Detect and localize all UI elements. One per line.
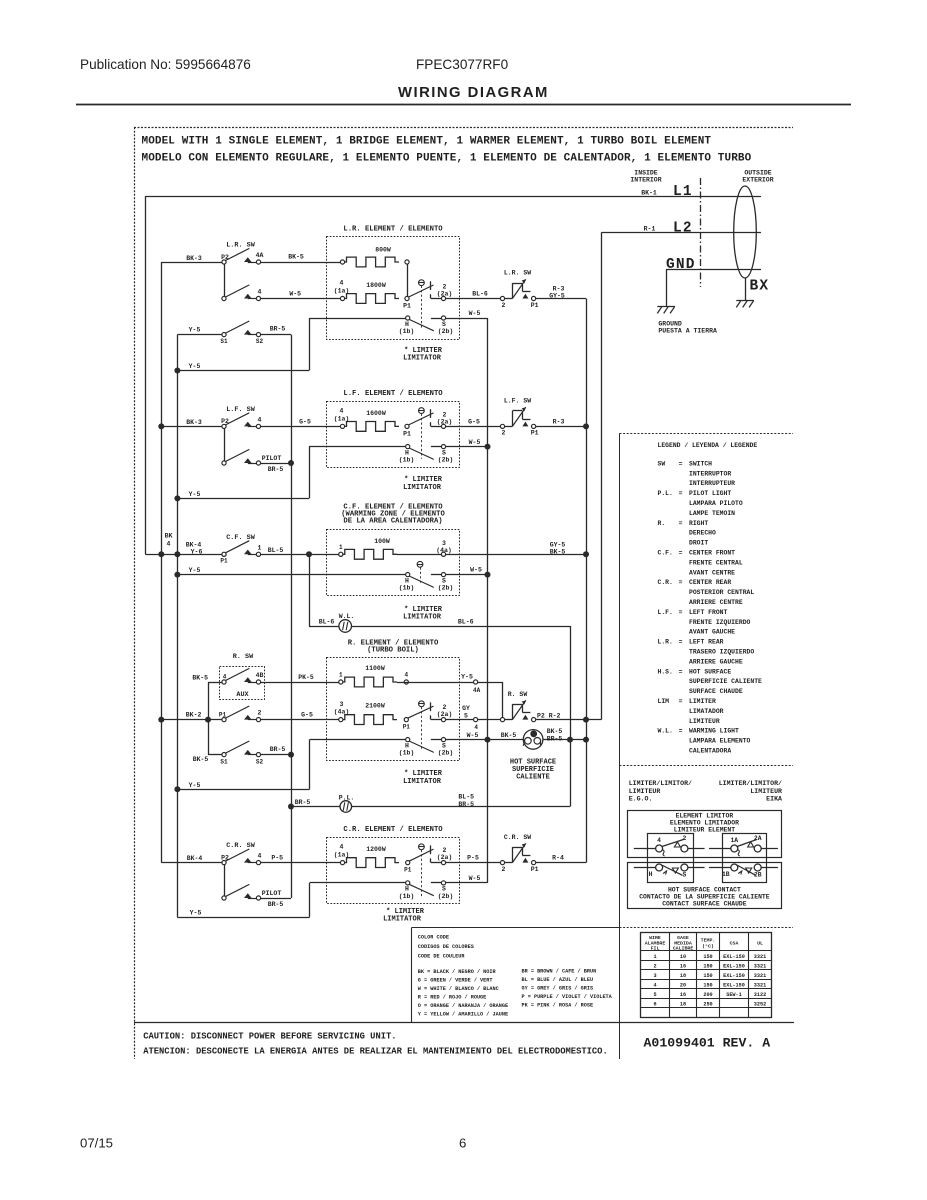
svg-text:L.R.: L.R.	[658, 639, 673, 646]
svg-text:(1a): (1a)	[334, 288, 350, 295]
svg-text:BK = BLACK / NEGRO / NOIR: BK = BLACK / NEGRO / NOIR	[418, 969, 497, 975]
svg-text:2: 2	[653, 963, 656, 969]
svg-text:=: =	[679, 490, 683, 497]
limiter contact P1-2a	[408, 285, 433, 297]
svg-text:BR-5: BR-5	[458, 801, 474, 808]
legend box top dashed line	[620, 433, 794, 435]
svg-text:3321: 3321	[754, 954, 766, 960]
svg-text:BK-5: BK-5	[501, 732, 517, 739]
svg-text:SWITCH: SWITCH	[689, 460, 712, 467]
svg-text:6: 6	[459, 1136, 466, 1151]
wire bus W-5	[487, 318, 489, 883]
pilot contact	[248, 463, 257, 465]
link P2 to pilot pole (C.R.)	[224, 865, 226, 897]
switch S1/S2 (R.)	[208, 754, 222, 756]
svg-text:5: 5	[653, 992, 656, 998]
svg-text:LIMITATOR: LIMITATOR	[383, 915, 422, 923]
svg-text:3252: 3252	[754, 1001, 766, 1007]
wire BR-5 from S2 (R.)	[261, 754, 291, 756]
svg-text:AVANT CENTRE: AVANT CENTRE	[689, 569, 735, 576]
svg-text:LIMITER: LIMITER	[689, 698, 716, 705]
svg-text:CALIBRE: CALIBRE	[673, 946, 694, 952]
svg-text:HOT SURFACE CONTACT: HOT SURFACE CONTACT	[668, 886, 741, 893]
wire bus W.L./BL-5	[570, 626, 572, 807]
svg-text:(2b): (2b)	[438, 750, 454, 757]
svg-text:BK-5: BK-5	[192, 675, 208, 682]
infinite switch L.F. SW	[500, 424, 504, 428]
svg-text:EXL-150: EXL-150	[723, 963, 745, 969]
svg-text:4: 4	[223, 673, 227, 680]
svg-text:H: H	[405, 321, 409, 328]
svg-text:(4a): (4a)	[436, 547, 452, 554]
svg-text:S: S	[442, 886, 446, 893]
svg-text:BL-6: BL-6	[319, 619, 335, 626]
svg-text:(2b): (2b)	[438, 585, 454, 592]
svg-text:(2b): (2b)	[438, 457, 454, 464]
svg-text:S: S	[442, 321, 446, 328]
svg-text:WIRE: WIRE	[649, 935, 661, 941]
svg-text:P-5: P-5	[467, 854, 479, 861]
svg-text:150: 150	[703, 954, 712, 960]
svg-text:S2: S2	[256, 338, 264, 345]
wire BL-6 warming light	[309, 554, 311, 626]
svg-text:4: 4	[258, 289, 262, 296]
svg-text:TRASERO IZQUIERDO: TRASERO IZQUIERDO	[689, 649, 754, 656]
svg-text:S1: S1	[220, 758, 228, 765]
svg-text:R-4: R-4	[552, 854, 564, 861]
L.R. element dashed box	[327, 237, 460, 340]
svg-text:R. SW: R. SW	[233, 653, 254, 661]
svg-text:L.R. SW: L.R. SW	[226, 242, 255, 250]
wire bus BK	[161, 262, 163, 863]
svg-text:4: 4	[340, 280, 344, 287]
pilot contact (C.R.)	[248, 898, 257, 900]
svg-text:DROIT: DROIT	[689, 540, 708, 547]
contact 4A	[248, 262, 257, 264]
wire pilot to BR bus (C.R.)	[261, 898, 291, 900]
svg-text:W = WHITE / BLANCO / BLANC: W = WHITE / BLANCO / BLANC	[418, 986, 499, 992]
link P2 to lower pole	[224, 264, 226, 296]
limiter contact P1-2a (R.)	[408, 706, 434, 718]
svg-text:DE LA AREA CALENTADORA): DE LA AREA CALENTADORA)	[343, 518, 442, 526]
L.R. H/S limiter row	[309, 318, 406, 320]
svg-text:BK-3: BK-3	[186, 419, 202, 426]
svg-text:(1b): (1b)	[399, 328, 415, 335]
switch L.R. SW pole P2	[226, 248, 250, 260]
svg-text:20: 20	[680, 982, 686, 988]
svg-text:HOT SURFACE: HOT SURFACE	[689, 668, 731, 675]
svg-text:P2: P2	[221, 254, 229, 261]
wire BK-3 to L.F. SW	[161, 426, 222, 428]
switch L.R. SW pole 2	[226, 285, 250, 297]
svg-text:P1: P1	[531, 430, 539, 437]
svg-text:CENTER REAR: CENTER REAR	[689, 579, 731, 586]
svg-text:C.R. SW: C.R. SW	[226, 842, 255, 850]
wire BK-5 aux feed	[208, 682, 222, 684]
svg-text:CENTER FRONT: CENTER FRONT	[689, 550, 735, 557]
svg-text:4A: 4A	[256, 252, 264, 259]
svg-text:(1a): (1a)	[334, 852, 350, 859]
cable loop ellipse	[734, 186, 757, 278]
svg-text:P2 R-2: P2 R-2	[537, 712, 561, 719]
svg-text:BR-5: BR-5	[268, 901, 284, 908]
L.F. element dashed box	[327, 402, 460, 468]
svg-text:(1b): (1b)	[399, 893, 415, 900]
svg-text:LIM: LIM	[658, 698, 670, 705]
hot surface contact box	[628, 863, 782, 909]
frame left edge	[134, 127, 136, 1059]
svg-text:16: 16	[680, 963, 686, 969]
svg-text:H: H	[405, 577, 409, 584]
svg-text:LIMITATOR: LIMITATOR	[403, 484, 442, 492]
svg-text:P1: P1	[403, 303, 411, 310]
svg-text:1: 1	[653, 954, 656, 960]
wire BL-6 to right	[351, 626, 570, 628]
svg-text:LIMITATOR: LIMITATOR	[403, 614, 442, 622]
BX ground symbol	[736, 300, 754, 302]
svg-text:G-5: G-5	[468, 418, 480, 425]
svg-text:4: 4	[340, 407, 344, 414]
svg-text:INTERRUPTEUR: INTERRUPTEUR	[689, 480, 735, 487]
svg-text:L.R. ELEMENT / ELEMENTO: L.R. ELEMENT / ELEMENTO	[343, 226, 443, 234]
svg-text:L.F. SW: L.F. SW	[504, 398, 531, 405]
limiter contact cell E.G.O.	[648, 834, 694, 883]
svg-text:GND: GND	[666, 257, 696, 273]
L.F. H/S limiter row	[309, 446, 406, 448]
svg-text:BL-6: BL-6	[458, 619, 474, 626]
svg-text:BL = BLUE / AZUL / BLEU: BL = BLUE / AZUL / BLEU	[522, 977, 594, 983]
svg-text:LIMITEUR: LIMITEUR	[689, 718, 720, 725]
svg-text:DERECHO: DERECHO	[689, 530, 716, 537]
svg-text:Y-5: Y-5	[189, 327, 201, 334]
svg-text:4: 4	[258, 416, 262, 423]
wire G-5 (R.)	[261, 719, 339, 721]
wire BR-5 to pilot lamp P.L.	[291, 806, 340, 808]
wire GY/5 to terminal 4	[446, 719, 474, 721]
svg-text:1600W: 1600W	[366, 410, 386, 417]
svg-text:L.R. SW: L.R. SW	[504, 270, 531, 277]
svg-text:16: 16	[680, 992, 686, 998]
BX ground stem	[745, 278, 747, 300]
svg-text:1: 1	[339, 672, 343, 679]
svg-text:LAMPARA ELEMENTO: LAMPARA ELEMENTO	[689, 738, 751, 745]
svg-text:BR-5: BR-5	[547, 735, 563, 742]
link 800W to P1	[407, 264, 409, 296]
svg-text:4B: 4B	[256, 672, 264, 679]
svg-text:L.F.: L.F.	[658, 609, 673, 616]
svg-text:P1: P1	[531, 302, 539, 309]
pilot switch pole	[226, 449, 250, 461]
svg-text:4: 4	[474, 724, 478, 731]
svg-text:P1: P1	[219, 711, 227, 718]
svg-text:OUTSIDE: OUTSIDE	[744, 170, 771, 177]
svg-text:3321: 3321	[754, 963, 766, 969]
switch S1/S2 interlock	[177, 334, 222, 336]
svg-text:LIMITER/LIMITOR/: LIMITER/LIMITOR/	[719, 780, 782, 787]
wire W-5	[261, 298, 341, 300]
svg-text:3: 3	[340, 701, 344, 708]
svg-text:R-3: R-3	[553, 418, 565, 425]
svg-text:Y-5: Y-5	[190, 910, 202, 917]
wire R-3 (L.F.)	[536, 426, 586, 428]
svg-text:EXL-150: EXL-150	[723, 973, 745, 979]
wire bus R-1 drop	[601, 232, 603, 719]
svg-text:BK-5: BK-5	[550, 549, 566, 556]
svg-text:BK-5: BK-5	[547, 728, 563, 735]
svg-text:BK-5: BK-5	[288, 254, 304, 261]
svg-text:LEGEND / LEYENDA / LEGENDE: LEGEND / LEYENDA / LEGENDE	[658, 442, 758, 449]
svg-text:R-1: R-1	[644, 225, 656, 232]
svg-text:CALENTADORA: CALENTADORA	[689, 748, 731, 755]
svg-text:R = RED / ROJO / ROUGE: R = RED / ROJO / ROUGE	[418, 995, 487, 1001]
svg-text:BK-2: BK-2	[186, 712, 202, 719]
svg-text:S: S	[442, 449, 446, 456]
limiter contact cell EIKA	[723, 834, 767, 883]
svg-text:P1: P1	[403, 430, 411, 437]
svg-text:W-5: W-5	[467, 732, 479, 739]
svg-text:BK-5: BK-5	[193, 756, 209, 763]
svg-text:3: 3	[442, 540, 446, 547]
svg-text:10: 10	[680, 954, 686, 960]
svg-text:2: 2	[502, 866, 506, 873]
svg-text:P2: P2	[221, 418, 229, 425]
svg-text:L.F. ELEMENT / ELEMENTO: L.F. ELEMENT / ELEMENTO	[343, 390, 443, 398]
svg-text:BR = BROWN / CAFE / BRUN: BR = BROWN / CAFE / BRUN	[522, 969, 597, 975]
svg-text:BR-5: BR-5	[270, 326, 286, 333]
wire Y-5 to 4A terminal	[397, 682, 474, 684]
resistor 1200W	[343, 858, 400, 868]
resistor 1800W	[343, 294, 400, 304]
infinite switch L.R. SW	[500, 296, 504, 300]
svg-text:(1b): (1b)	[399, 585, 415, 592]
contact 2 (R.)	[248, 719, 257, 721]
wire BL-5	[261, 554, 339, 556]
svg-text:(°C): (°C)	[702, 943, 714, 949]
wire Y-5 return to H (L.F.)	[177, 498, 309, 500]
wire bus R-3	[586, 299, 588, 863]
svg-text:100W: 100W	[374, 538, 390, 545]
wire P-5 to C.R. SW	[446, 862, 501, 864]
svg-text:2: 2	[682, 835, 686, 842]
resistor 2100W	[341, 715, 397, 725]
svg-text:150: 150	[703, 963, 712, 969]
svg-text:(2b): (2b)	[438, 893, 454, 900]
svg-text:(2a): (2a)	[437, 418, 453, 425]
svg-text:BK-4: BK-4	[187, 855, 203, 862]
svg-text:2: 2	[443, 411, 447, 418]
thermostat theta (C.R.)	[419, 844, 425, 850]
svg-text:(1b): (1b)	[399, 750, 415, 757]
svg-text:LEFT FRONT: LEFT FRONT	[689, 609, 728, 616]
thermostat theta (R.)	[419, 701, 425, 707]
svg-text:MEDIDA: MEDIDA	[674, 940, 692, 946]
svg-text:TEMP.: TEMP.	[701, 938, 716, 944]
svg-text:3: 3	[653, 973, 656, 979]
svg-text:(4a): (4a)	[334, 708, 350, 715]
wire R-3 / GY-5	[536, 298, 586, 300]
svg-text:INTERIOR: INTERIOR	[630, 177, 661, 184]
wire R-4	[536, 862, 586, 864]
svg-text:=: =	[679, 698, 683, 705]
wire BK-5 to hot surface lamp	[488, 739, 524, 741]
svg-text:BK: BK	[165, 533, 173, 540]
svg-text:H: H	[405, 742, 409, 749]
limiter contact P1-2a (L.F.)	[408, 413, 433, 425]
ground symbol	[657, 306, 675, 308]
svg-text:G-5: G-5	[301, 711, 313, 718]
svg-text:Y-5: Y-5	[461, 674, 473, 681]
svg-text:LAMPARA PILOTO: LAMPARA PILOTO	[689, 500, 743, 507]
svg-text:=: =	[679, 609, 683, 616]
svg-text:BL-5: BL-5	[268, 547, 284, 554]
svg-text:Y-5: Y-5	[189, 363, 201, 370]
svg-text:1B: 1B	[722, 871, 730, 878]
svg-text:G-5: G-5	[299, 418, 311, 425]
svg-text:AVANT GAUCHE: AVANT GAUCHE	[689, 629, 735, 636]
wire pilot to BR bus	[261, 463, 291, 465]
svg-text:WARMING LIGHT: WARMING LIGHT	[689, 728, 739, 735]
svg-text:LIMITATOR: LIMITATOR	[403, 778, 442, 786]
svg-text:1200W: 1200W	[366, 846, 386, 853]
C.R. element dashed box	[327, 838, 460, 904]
contact 4 (C.R.)	[248, 862, 257, 864]
svg-text:COLOR CODE: COLOR CODE	[418, 935, 449, 941]
wire BK-5	[261, 262, 341, 264]
legend box bottom dashed line	[620, 765, 794, 767]
svg-text:P2: P2	[221, 854, 229, 861]
infinite switch R. SW	[500, 718, 504, 722]
svg-text:PK = PINK / ROSA / ROSE: PK = PINK / ROSA / ROSE	[522, 1003, 594, 1009]
svg-text:BL-6: BL-6	[472, 290, 488, 297]
svg-text:UL: UL	[757, 941, 763, 947]
resistor 800W	[343, 257, 400, 267]
warming light W.L.	[339, 620, 352, 633]
svg-text:GY-5: GY-5	[550, 541, 566, 548]
svg-text:L.F. SW: L.F. SW	[226, 406, 255, 414]
svg-text:O = ORANGE / NARANJA / ORANGE: O = ORANGE / NARANJA / ORANGE	[418, 1003, 508, 1009]
wire BK-4/Y-6 feed row	[145, 554, 222, 556]
svg-text:GAGE: GAGE	[677, 935, 689, 941]
svg-text:EXTERIOR: EXTERIOR	[742, 177, 773, 184]
svg-text:S: S	[442, 742, 446, 749]
svg-text:ALAMBRE: ALAMBRE	[645, 940, 666, 946]
svg-text:BK-1: BK-1	[641, 189, 657, 196]
switch C.R. SW pole P2	[226, 849, 250, 861]
svg-text:5: 5	[464, 712, 468, 719]
wire L2 / R-1	[602, 232, 762, 234]
link P2 to pilot pole	[224, 429, 226, 461]
svg-text:18: 18	[680, 1001, 686, 1007]
R. H/S limiter row	[310, 739, 406, 741]
svg-text:H: H	[405, 886, 409, 893]
svg-text:1A: 1A	[730, 837, 738, 844]
svg-text:A01099401 REV. A: A01099401 REV. A	[644, 1036, 771, 1051]
svg-text:LIMITER/LIMITOR/: LIMITER/LIMITOR/	[629, 780, 692, 787]
svg-text:Y-5: Y-5	[189, 491, 201, 498]
svg-text:LIMITEUR: LIMITEUR	[750, 788, 782, 795]
wire G-5 to L.F. SW	[446, 426, 501, 428]
wire Y-5 bottom return	[177, 917, 309, 919]
wire PK-5	[261, 682, 339, 684]
wire R-2	[536, 719, 602, 721]
svg-text:BX: BX	[750, 279, 770, 295]
resistor 100W	[341, 549, 397, 559]
svg-text:LIMITEUR ELEMENT: LIMITEUR ELEMENT	[674, 826, 736, 833]
svg-text:CODE DE COULEUR: CODE DE COULEUR	[418, 954, 466, 960]
color code box	[412, 927, 620, 929]
svg-text:S1: S1	[220, 338, 228, 345]
svg-text:S: S	[682, 871, 686, 878]
switch C.F. SW pole P1	[226, 541, 250, 553]
svg-text:18: 18	[680, 973, 686, 979]
svg-text:SUPERFICIE CALIENTE: SUPERFICIE CALIENTE	[689, 678, 762, 685]
svg-text:P.L.: P.L.	[658, 490, 673, 497]
svg-text:4: 4	[258, 853, 262, 860]
svg-text:C.F. SW: C.F. SW	[226, 534, 255, 542]
svg-text:CSA: CSA	[730, 941, 739, 947]
svg-text:POSTERIOR CENTRAL: POSTERIOR CENTRAL	[689, 589, 754, 596]
svg-text:PILOT: PILOT	[262, 455, 282, 462]
svg-text:Publication No: 5995664876: Publication No: 5995664876	[80, 57, 251, 72]
svg-text:ARRIERE GAUCHE: ARRIERE GAUCHE	[689, 658, 743, 665]
svg-text:H: H	[649, 871, 653, 878]
svg-text:800W: 800W	[375, 246, 391, 253]
wire GND	[666, 269, 761, 271]
svg-text:Y = YELLOW / AMARILLO / JAUNE: Y = YELLOW / AMARILLO / JAUNE	[418, 1012, 508, 1018]
wire P-5 to element	[261, 862, 341, 864]
svg-text:G = GREEN / VERDE / VERT: G = GREEN / VERDE / VERT	[418, 978, 493, 984]
svg-text:4: 4	[657, 837, 661, 844]
svg-text:GY: GY	[462, 705, 470, 712]
svg-text:L1: L1	[673, 184, 693, 200]
wire G-5 to element	[261, 426, 341, 428]
svg-text:4: 4	[167, 541, 171, 548]
svg-text:FIL: FIL	[651, 946, 660, 952]
svg-text:E.G.O.: E.G.O.	[629, 796, 653, 803]
switch L.F. SW pole P2	[226, 413, 250, 425]
svg-text:H.S.: H.S.	[658, 668, 673, 675]
svg-text:BR-5: BR-5	[295, 799, 311, 806]
inside/outside separator dash-dot line	[700, 178, 702, 287]
C.R. H/S limiter row	[310, 882, 406, 884]
wire BK-3 to L.R. SW	[161, 262, 222, 264]
svg-text:GROUND: GROUND	[658, 321, 682, 328]
svg-text:WIRING DIAGRAM: WIRING DIAGRAM	[398, 85, 549, 101]
svg-text:4A: 4A	[473, 687, 481, 694]
svg-text:2: 2	[502, 302, 506, 309]
svg-text:CONTACTO DE LA SUPERFICIE CALI: CONTACTO DE LA SUPERFICIE CALIENTE	[639, 893, 770, 900]
wire BK-5/BR-5 right of lamp	[543, 739, 586, 741]
svg-text:RIGHT: RIGHT	[689, 520, 708, 527]
svg-text:LEFT REAR: LEFT REAR	[689, 639, 724, 646]
resistor 1600W	[343, 422, 400, 432]
R. element dashed box	[327, 658, 460, 761]
svg-text:GY-5: GY-5	[549, 292, 565, 299]
svg-text:3321: 3321	[754, 982, 766, 988]
wire bus Y	[177, 335, 179, 918]
svg-text:SW: SW	[658, 460, 666, 467]
element limitor box	[628, 811, 782, 858]
svg-text:R.: R.	[658, 520, 666, 527]
svg-text:=: =	[679, 520, 683, 527]
svg-text:1100W: 1100W	[365, 665, 385, 672]
svg-text:2: 2	[502, 430, 506, 437]
svg-text:PILOT: PILOT	[262, 890, 282, 897]
svg-text:MODEL WITH 1 SINGLE ELEMENT, 1: MODEL WITH 1 SINGLE ELEMENT, 1 BRIDGE EL…	[142, 136, 712, 148]
svg-text:BR-5: BR-5	[268, 466, 284, 473]
svg-text:=: =	[679, 460, 683, 467]
thermostat theta (L.F.)	[419, 408, 425, 414]
